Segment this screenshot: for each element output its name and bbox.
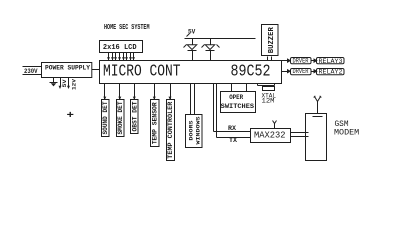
- svg-text:5V: 5V: [61, 79, 68, 88]
- svg-text:+: +: [67, 111, 75, 122]
- svg-text:HOME SEC SYSTEM: HOME SEC SYSTEM: [104, 24, 150, 32]
- svg-text:DRVER: DRVER: [293, 68, 309, 75]
- svg-text:5V: 5V: [188, 29, 196, 36]
- svg-text:TEMP SENSOR: TEMP SENSOR: [152, 102, 159, 144]
- svg-text:BUZZER: BUZZER: [268, 26, 276, 53]
- svg-text:WINDOWS: WINDOWS: [194, 116, 201, 145]
- svg-text:DOORS: DOORS: [187, 120, 194, 141]
- svg-text:TEMP CONTROLER: TEMP CONTROLER: [167, 101, 174, 158]
- svg-text:RX: RX: [228, 125, 236, 132]
- svg-text:DRVER: DRVER: [293, 58, 309, 65]
- svg-text:SOUND DET: SOUND DET: [102, 101, 109, 134]
- svg-text:12V: 12V: [71, 78, 78, 90]
- svg-text:RELAY3: RELAY3: [319, 58, 343, 65]
- svg-text:MAX232: MAX232: [254, 130, 286, 140]
- svg-text:MODEM: MODEM: [334, 129, 359, 138]
- svg-text:TX: TX: [229, 137, 237, 144]
- svg-text:SWITCHES: SWITCHES: [221, 103, 254, 110]
- svg-text:230V: 230V: [24, 68, 38, 75]
- svg-text:MICRO CONT: MICRO CONT: [103, 62, 181, 81]
- svg-text:12M: 12M: [262, 97, 275, 104]
- svg-text:POWER SUPPLY: POWER SUPPLY: [45, 64, 90, 71]
- svg-text:RELAY2: RELAY2: [319, 68, 343, 75]
- svg-text:GSM: GSM: [335, 120, 349, 129]
- svg-text:OBST DET: OBST DET: [131, 101, 138, 131]
- svg-text:SMOKE DET: SMOKE DET: [117, 101, 124, 134]
- svg-text:89C52: 89C52: [231, 62, 271, 81]
- svg-text:OPER: OPER: [229, 94, 243, 101]
- svg-text:2x16 LCD: 2x16 LCD: [103, 44, 137, 52]
